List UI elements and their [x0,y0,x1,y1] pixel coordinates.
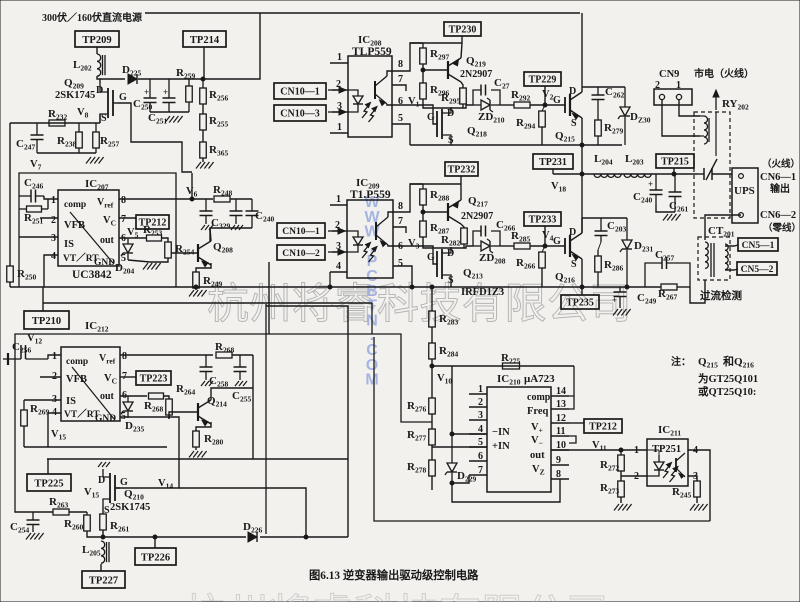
resistor R288 [420,184,450,205]
R280 bottom [195,447,197,450]
svg-text:G: G [553,95,561,106]
svg-text:out: out [100,235,115,246]
note line2 [698,372,758,385]
resistor R286 [595,242,624,287]
IC209 phototransistor [376,217,388,247]
svg-text:CN10—1: CN10—1 [282,227,320,237]
IC209 left pin numbers [335,194,341,272]
svg-text:睿: 睿 [312,593,354,602]
parallel RC loop 2 top [473,231,500,246]
svg-text:out: out [530,450,545,461]
test point TP226 [135,548,176,565]
Q214 right leg [252,430,254,459]
svg-text:8: 8 [556,469,561,480]
TP232 stub down [460,176,462,184]
label V1 [408,96,420,109]
capacitor C256 [8,341,48,359]
label IRFD1Z3 [461,287,504,298]
svg-text:TP212: TP212 [589,422,617,433]
transistor Q210 mosfet mirrored [98,469,128,516]
note line1 [671,354,754,370]
IC207 label [85,178,109,192]
wire Q209 source down [99,114,101,123]
op-amp U IC207 UC3842 body [58,190,119,266]
IC210 texts [527,392,551,477]
R263 right [69,511,87,513]
resistor R232 [48,108,67,126]
optocoupler IC211 box [647,439,688,486]
svg-text:S: S [101,113,107,124]
resistor R263 [49,496,69,515]
svg-text:CN5—1: CN5—1 [742,241,775,251]
svg-text:UPS: UPS [734,185,755,197]
ground bus [10,285,661,289]
V10 junction [430,364,434,368]
midpoint dot on AC line [580,172,584,176]
IC212 enclosure [15,334,372,511]
label C255 [232,390,251,404]
IC207 right pin texts [97,197,116,246]
svg-text:杭: 杭 [184,592,226,602]
svg-text:CN10—2: CN10—2 [282,249,320,259]
wire L202 to Q209 drain node [97,76,100,83]
IC209 pin6 wire [393,246,437,264]
wire V6 up [191,173,193,199]
svg-text:TP209: TP209 [82,35,111,46]
svg-text:μA723: μA723 [524,373,555,385]
pin12 to TP212b [569,422,584,424]
test point TP229 [524,72,561,86]
IC208 pin8 wire [392,43,423,71]
svg-text:TP215: TP215 [661,157,689,168]
IC207 pin texts [63,200,115,268]
CT201 secondary wire 2 [725,269,738,270]
Q210 source down [102,505,104,514]
svg-text:13: 13 [556,399,566,410]
wire R254 bottom [150,258,168,262]
resistor R248 [213,184,232,202]
test point TP232 [445,162,478,176]
label overcurrent detect [700,289,742,302]
pin7 ext [452,475,469,483]
Q215 collector up [581,13,583,92]
IC211 label [658,424,681,438]
svg-text:或QT25Q10:: 或QT25Q10: [698,385,756,398]
svg-text:G: G [427,252,435,263]
IC207 pin2 stub [40,217,58,219]
text 300V/160V DC supply label [42,11,142,24]
IC207 pin numbers [51,195,126,264]
resistor R269 [21,400,50,426]
Q210 labels [110,488,150,513]
capacitor C261 [669,174,689,214]
transistor Q209 labels [55,77,95,101]
resistor R253 [143,224,162,241]
IC211 LED [647,450,664,476]
svg-text:VFB: VFB [64,220,85,231]
IC207 enclosure box [19,173,176,287]
TP231 stub [552,169,554,174]
label V6 [186,186,198,199]
svg-text:14: 14 [556,386,566,397]
snubber node to parallel pair [451,105,473,108]
ground C249 [613,309,631,316]
pin2 wire IC211 [621,475,647,477]
left rail down [9,123,11,266]
TP210 top stub [42,287,44,311]
label V8 [77,107,89,120]
R278 bottom [431,476,433,490]
CN9 pin1 wire [679,100,700,116]
CT201 secondary coil [725,244,728,270]
svg-text:2: 2 [478,397,483,408]
arrow CN10-1 to pin2 [328,87,346,93]
Q219 emitter down [461,82,463,88]
capacitor C255a [209,355,247,389]
svg-text:G: G [120,477,128,488]
svg-text:限: 限 [482,593,524,602]
D231 bus dot [625,285,629,289]
wire source row [10,122,100,124]
ground for R365 [196,162,214,169]
op-amp U IC210 uA723 body [487,387,551,492]
pin5 wire [432,446,487,448]
TP233 stub [544,226,546,246]
test point TP233 [524,212,561,226]
snubber2 stub top [582,217,627,219]
capacitor C240 output [633,174,663,205]
transistor Q214 [198,395,227,426]
svg-text:comp: comp [527,392,551,403]
svg-text:G: G [119,92,127,103]
wire R248 right [230,198,252,200]
transistor Q218 mosfet [427,107,487,146]
label R264 [176,383,195,397]
svg-text:8: 8 [121,195,126,206]
svg-text:GND: GND [94,258,115,268]
test point TP235 [561,295,599,309]
label V12 [27,333,42,346]
R249 to bus [195,288,197,290]
resistor R282 [441,228,467,248]
AC line [553,173,698,175]
pin11 link [569,436,576,443]
input electrode [3,353,8,365]
snubber stub top [582,86,625,88]
V10 drop wire [451,366,453,434]
svg-text:1: 1 [336,194,341,205]
svg-text:8: 8 [398,59,403,70]
wire D225 to node A [138,78,203,80]
connector CN10-1 bottom [277,223,325,238]
wire CN10-2 drop [268,262,270,334]
test point TP225 [27,474,71,491]
svg-text:6: 6 [478,451,483,462]
transistor Q217 2N2907 [448,195,493,224]
D229 bottom junction [450,481,454,485]
R273 bottom [620,497,622,503]
R285 to gate2 node [530,245,565,247]
IC208 pin7 stub [392,85,406,91]
svg-text:限: 限 [505,282,547,328]
capacitor C240 upper [246,199,275,228]
right box vertical [266,306,348,537]
connector CN10-2 [277,245,325,260]
CT201 primary path [690,280,705,303]
TP225 stub [47,459,49,474]
lower rail y303 [43,302,372,304]
midpoint junction top [580,143,584,147]
optocoupler IC209 box [347,200,393,278]
IC211 phototransistor [676,453,685,478]
label V18 [551,181,566,194]
wire C240 to Q208 collector [210,228,252,241]
resistor R278 [407,460,435,476]
base drive to Q214 [169,412,198,419]
TP215 stub [673,168,675,174]
enclosure uA723 left link [372,303,432,422]
svg-text:注：: 注： [671,355,691,368]
IC207 pin7 wire [119,217,136,219]
capacitor C251 [148,79,176,126]
CN9 pin2 wire [662,100,700,136]
svg-text:2: 2 [634,471,639,482]
svg-text:S: S [571,259,577,270]
IC209 pin5 wire [393,266,412,287]
IC208 labels [352,34,392,58]
Q213 drain wire [450,248,452,251]
C256 to pin1 [48,355,61,359]
zener D204 [115,238,134,276]
R266b bottom [541,268,543,287]
resistor R272 [600,450,624,473]
node base junction [421,68,425,72]
IC212 pin6 out wire [120,395,147,397]
svg-text:图6.13 逆变器输出驱动级控制电路: 图6.13 逆变器输出驱动级控制电路 [309,568,479,582]
svg-text:TP231: TP231 [539,157,567,168]
resistor R365 [200,142,229,158]
relay contacts [698,112,732,180]
svg-text:TP210: TP210 [32,316,61,327]
pin4 wire [452,433,487,435]
IC209 photon arrows [362,243,377,263]
wire node to D225 [100,78,125,80]
IC210 left pin lines [469,394,487,475]
svg-text:12: 12 [556,413,566,424]
IC212 right pin texts [99,353,117,402]
watermark bottom partial row [184,592,609,602]
svg-text:过流检测: 过流检测 [700,289,742,302]
ground hatch R249 [189,290,207,297]
test point TP215 [656,154,694,168]
zener D231 [620,218,653,287]
IC208 left pin numbers [336,52,342,133]
resistor R295 [441,88,466,106]
inductor L204 [594,153,621,177]
resistor R249 [193,272,223,289]
svg-text:2: 2 [51,215,56,226]
capacitor C247 [16,123,44,153]
relay RY202 dashed box [694,112,730,218]
IC210 left pin numbers [478,384,483,476]
driver2 top rail [410,183,461,185]
capacitor C246 [19,177,44,203]
svg-text:D: D [96,85,103,96]
svg-text:M: M [365,372,378,389]
resistor R280 [193,431,224,447]
resistor R287 [420,221,450,237]
diode D225 [122,64,141,84]
ground R273 [614,504,632,511]
wire D204 bottom [128,260,150,262]
R292 to gate node [530,104,565,106]
test point TP223 [136,371,171,385]
IC208 right pin numbers [398,59,403,124]
svg-text:D: D [98,475,105,486]
note line3 [698,385,756,398]
resistor R267 in bus [658,284,677,302]
test point TP214 [183,31,226,47]
label V2 [542,89,554,102]
IC212 pin4 wire [48,413,61,447]
svg-text:CN6—1: CN6—1 [760,172,796,183]
R282 bottom [463,244,465,248]
svg-text:8: 8 [398,201,403,212]
wire pin8 Vref to V6 node [119,198,213,200]
IC207 pin3 wire [19,236,58,238]
svg-text:2SK1745: 2SK1745 [55,90,95,101]
snubber2 node to parallel pair [451,246,473,248]
transistor Q208 [198,241,233,267]
svg-text:1: 1 [52,351,57,362]
R272 to R273 [620,471,622,481]
IC208 pin6 wire [392,105,437,124]
watermark main row [207,281,632,328]
svg-text:+: + [163,87,168,97]
gate2 node junction [543,244,547,248]
label V11 [592,440,607,453]
resistor R245 [672,481,700,500]
label V14 [158,478,173,491]
resistor R296 [420,83,450,99]
IC209 pin8 wire [393,184,423,212]
svg-text:CN6—2: CN6—2 [760,210,796,221]
resistor R238 [57,123,82,153]
zener ZD210 [473,98,505,125]
wire R253 to R254 [161,238,168,242]
svg-text:TP223: TP223 [140,374,168,385]
connector CN5-2 [737,262,777,275]
svg-text:5: 5 [398,258,403,269]
svg-text:2SK1745: 2SK1745 [110,502,150,513]
IC207 pin4 wire [44,255,58,287]
capacitor C254 [10,512,44,540]
inductor L203 [624,153,651,177]
IC208 internal emitter wire [387,104,392,105]
svg-text:11: 11 [556,426,565,437]
wire C246 to pin1 [44,196,58,199]
CT201 secondary wire 1 [725,245,738,246]
R294 bottom [541,127,543,145]
ground output caps [663,214,681,221]
Q214 emitter wire [196,422,211,431]
Q218 source wire [450,141,452,145]
svg-text:TP232: TP232 [448,165,476,176]
resistor R255 [200,114,229,130]
left rail to bus [9,282,11,287]
L205 to TP227 [100,564,102,571]
IC210 inner texts [492,427,510,452]
emitter junction bus [580,285,584,289]
Q216 collector up [581,218,583,233]
diode D226 [243,521,262,542]
svg-text:3: 3 [51,233,56,244]
Q215 emitter down [581,118,583,145]
R245 bottom [696,497,698,503]
TP230 stub down [461,36,463,43]
svg-text:1: 1 [337,52,342,63]
wire TP209 to L202 [96,47,98,54]
TP215 node dot [672,172,676,176]
label V15a [51,429,66,442]
IC209 pin7 stub [393,227,406,233]
svg-text:技: 技 [397,593,439,602]
connector CN10-3 [274,105,326,121]
midpoint down [581,145,583,233]
svg-text:UC3842: UC3842 [72,269,112,281]
label V5 [127,227,139,240]
resistor R266 [215,341,234,358]
resistor R294 [516,105,545,131]
transistor Q213 mosfet [427,247,483,286]
wire R365 to ground [202,158,204,162]
relay coil [700,116,709,144]
IC209 right pin numbers [398,201,403,269]
wire Q209 gate to driver [118,103,192,172]
svg-text:−IN: −IN [492,427,510,438]
resistor R250 [7,266,37,282]
TP226 stub [154,537,156,548]
label V15b [84,487,99,500]
svg-text:有: 有 [439,593,481,602]
test point TP209 [75,31,119,47]
wire R255 to R365 [202,130,204,142]
ground R280 [189,451,207,458]
pin4 junction [450,432,454,436]
current transformer CT201 [698,225,735,280]
IC211 pin3 wire [688,476,697,481]
IGBT Q216 [553,227,582,285]
CN9 pin numbers [655,80,681,91]
wire R259 bottom [169,111,189,113]
ground for D204 R254 [143,263,161,270]
svg-text:TP225: TP225 [34,478,63,489]
R268 to R264 [163,396,169,399]
IC208 left pin lines [330,63,348,133]
svg-text:4: 4 [336,261,341,272]
R275 to pin14 link [569,366,574,409]
Q217 base wire [423,211,448,213]
TP226 junction [153,535,157,539]
resistor R276 [407,398,435,414]
wire bottom of RC group [37,152,96,154]
svg-text:3: 3 [478,410,483,421]
Q219 collector up [461,43,462,58]
svg-text:CN9: CN9 [659,69,679,80]
svg-text:市电（火线）: 市电（火线） [694,67,754,80]
svg-text:将: 将 [269,593,311,602]
svg-text:1: 1 [51,195,56,206]
